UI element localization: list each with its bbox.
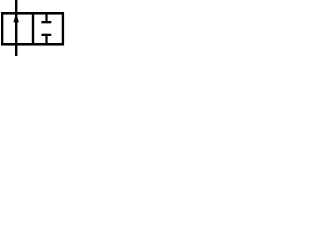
current direction arrow (points up at top rail) [13,13,19,22]
wire: bottom rail of loop [1,43,64,46]
wire: right side of loop [62,12,64,46]
capacitor top plate [41,21,51,23]
wire: left side of loop [1,12,3,46]
wire: capacitor bottom lead [45,36,47,45]
wire: middle internal branch [32,12,34,46]
wire: capacitor top lead [45,13,47,22]
capacitor bottom plate [41,34,51,36]
wire: full-height conductor with current arrow [15,0,17,56]
wire: top rail of loop [1,12,64,15]
